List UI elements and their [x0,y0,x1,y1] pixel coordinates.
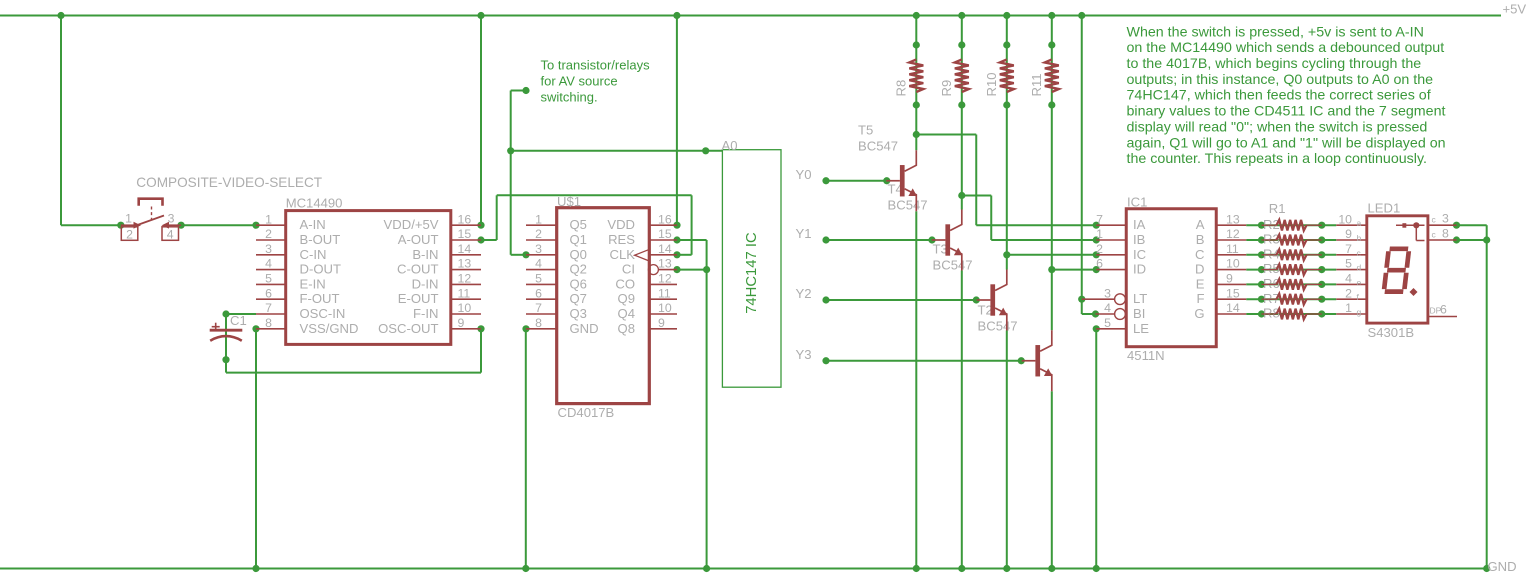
svg-text:OSC-IN: OSC-IN [300,306,346,321]
svg-text:Y0: Y0 [796,167,812,182]
svg-text:5: 5 [1104,316,1111,330]
svg-text:F-OUT: F-OUT [300,291,340,306]
svg-text:2: 2 [535,227,542,241]
svg-text:3: 3 [168,212,175,226]
svg-text:1: 1 [1345,301,1352,315]
svg-text:1: 1 [265,212,272,226]
svg-text:6: 6 [1440,303,1447,317]
svg-text:D-OUT: D-OUT [300,262,341,277]
svg-text:9: 9 [1226,272,1233,286]
svg-text:Q6: Q6 [570,276,587,291]
svg-text:4: 4 [1104,301,1111,315]
svg-text:C-IN: C-IN [300,247,327,262]
svg-text:74HC147, which then feeds the: 74HC147, which then feeds the correct se… [1127,88,1431,104]
svg-text:GND: GND [570,321,599,336]
svg-text:10: 10 [1338,212,1352,226]
svg-text:again, Q1 will go to A1 and "1: again, Q1 will go to A1 and "1" will be … [1127,135,1446,151]
svg-text:11: 11 [1226,242,1239,256]
svg-text:5: 5 [1345,257,1352,271]
svg-text:R9: R9 [939,80,954,97]
svg-text:on the MC14490 which sends a d: on the MC14490 which sends a debounced o… [1127,40,1445,56]
svg-text:1: 1 [1096,227,1103,241]
svg-text:A0: A0 [722,138,738,153]
svg-text:C-OUT: C-OUT [397,262,438,277]
svg-text:F-IN: F-IN [413,306,438,321]
svg-text:BC547: BC547 [888,198,928,213]
svg-text:14: 14 [658,242,672,256]
svg-text:LED1: LED1 [1368,201,1401,216]
svg-text:Q1: Q1 [570,232,587,247]
svg-text:BC547: BC547 [933,258,973,273]
svg-text:To transistor/relays: To transistor/relays [541,57,651,72]
svg-text:D-IN: D-IN [412,276,439,291]
svg-text:7: 7 [1096,212,1103,226]
svg-text:e: e [1357,277,1362,287]
svg-text:8: 8 [265,316,272,330]
svg-text:5: 5 [535,272,542,286]
svg-text:A-IN: A-IN [300,217,326,232]
svg-text:T5: T5 [858,122,873,137]
svg-text:2: 2 [126,228,133,242]
svg-text:13: 13 [1226,212,1240,226]
svg-text:6: 6 [265,286,272,300]
svg-text:Q7: Q7 [570,291,587,306]
svg-text:4: 4 [167,228,174,242]
svg-text:10: 10 [658,301,672,315]
svg-text:RES: RES [608,232,635,247]
svg-text:MC14490: MC14490 [286,195,343,210]
svg-text:COMPOSITE-VIDEO-SELECT: COMPOSITE-VIDEO-SELECT [136,175,322,190]
svg-text:BC547: BC547 [858,138,898,153]
svg-text:CD4017B: CD4017B [558,405,615,420]
svg-text:7: 7 [1345,242,1352,256]
svg-text:BC547: BC547 [978,318,1018,333]
svg-text:9: 9 [458,316,465,330]
svg-text:E-IN: E-IN [300,276,326,291]
svg-text:13: 13 [658,257,672,271]
svg-text:G: G [1194,306,1204,321]
svg-text:8: 8 [1442,226,1449,240]
svg-text:8: 8 [535,316,542,330]
svg-text:12: 12 [658,272,672,286]
svg-text:9: 9 [658,316,665,330]
svg-text:1: 1 [125,212,132,226]
svg-text:11: 11 [658,286,671,300]
svg-text:5: 5 [265,272,272,286]
svg-text:IC1: IC1 [1127,194,1147,209]
svg-text:Q9: Q9 [618,291,635,306]
svg-text:E-OUT: E-OUT [398,291,439,306]
svg-text:R1: R1 [1269,201,1286,216]
svg-text:for AV source: for AV source [541,73,618,88]
svg-text:outputs; in this instance, Q0: outputs; in this instance, Q0 outputs to… [1127,72,1434,88]
svg-text:14: 14 [1226,301,1240,315]
svg-text:b: b [1357,233,1362,243]
svg-text:+5V: +5V [1503,2,1527,17]
svg-text:11: 11 [458,286,471,300]
svg-text:12: 12 [1226,227,1240,241]
svg-text:CI: CI [622,262,635,277]
svg-text:switching.: switching. [541,89,598,104]
svg-text:C1: C1 [230,313,247,328]
svg-text:LE: LE [1133,321,1149,336]
svg-text:3: 3 [265,242,272,256]
svg-text:A: A [1196,217,1205,232]
svg-text:74HC147 IC: 74HC147 IC [744,232,760,314]
svg-text:7: 7 [265,301,272,315]
svg-text:Q8: Q8 [618,321,635,336]
svg-text:binary values to the CD4511 IC: binary values to the CD4511 IC and the 7… [1127,104,1446,120]
svg-text:9: 9 [1345,227,1352,241]
svg-text:VDD: VDD [607,217,635,232]
svg-text:B-OUT: B-OUT [300,232,341,247]
svg-text:C: C [1195,247,1204,262]
svg-text:Y2: Y2 [796,286,812,301]
svg-text:IA: IA [1133,217,1146,232]
svg-text:15: 15 [458,227,472,241]
svg-text:VDD/+5V: VDD/+5V [384,217,439,232]
svg-text:R11: R11 [1029,73,1044,96]
svg-text:the counter. This repeats in a: the counter. This repeats in a loop cont… [1127,151,1428,167]
svg-text:Q5: Q5 [570,217,587,232]
svg-text:D: D [1195,262,1204,277]
svg-text:4: 4 [265,257,272,271]
svg-text:6: 6 [1096,257,1103,271]
svg-text:GND: GND [1488,559,1517,574]
svg-text:B: B [1196,232,1205,247]
svg-text:IC: IC [1133,247,1146,262]
svg-text:Q2: Q2 [570,262,587,277]
svg-text:4511N: 4511N [1127,348,1165,363]
svg-text:ID: ID [1133,262,1146,277]
svg-text:U$1: U$1 [557,194,581,209]
svg-text:1: 1 [535,212,542,226]
svg-text:14: 14 [458,242,472,256]
svg-text:CO: CO [615,276,635,291]
svg-text:Y1: Y1 [796,226,812,241]
svg-text:16: 16 [458,212,472,226]
svg-text:15: 15 [1226,286,1240,300]
svg-text:CLK: CLK [610,247,636,262]
svg-text:7: 7 [535,301,542,315]
svg-text:BI: BI [1133,306,1145,321]
svg-text:E: E [1196,276,1205,291]
svg-text:13: 13 [458,257,472,271]
svg-text:F: F [1197,291,1205,306]
svg-text:d: d [1357,263,1362,273]
svg-text:3: 3 [535,242,542,256]
svg-text:10: 10 [1226,257,1240,271]
svg-text:2: 2 [1345,286,1352,300]
svg-text:2: 2 [1096,242,1103,256]
svg-text:12: 12 [458,272,472,286]
svg-text:4: 4 [535,257,542,271]
svg-text:IB: IB [1133,232,1146,247]
svg-text:R10: R10 [984,72,999,96]
svg-text:3: 3 [1442,212,1449,226]
svg-text:10: 10 [458,301,472,315]
svg-text:16: 16 [658,212,672,226]
svg-text:OSC-OUT: OSC-OUT [378,321,438,336]
svg-text:S4301B: S4301B [1368,325,1415,340]
svg-text:R8: R8 [893,80,908,97]
svg-text:When the switch is pressed, +5: When the switch is pressed, +5v is sent … [1127,24,1424,40]
svg-text:Q3: Q3 [570,306,587,321]
svg-text:VSS/GND: VSS/GND [300,321,359,336]
svg-text:6: 6 [535,286,542,300]
svg-text:a: a [1357,218,1362,228]
svg-text:B-IN: B-IN [412,247,438,262]
svg-text:Q0: Q0 [570,247,587,262]
svg-text:Y3: Y3 [796,347,812,362]
svg-text:LT: LT [1133,291,1147,306]
svg-text:display will read "0"; when th: display will read "0"; when the switch i… [1127,119,1428,135]
svg-text:A-OUT: A-OUT [398,232,439,247]
svg-text:g: g [1357,307,1362,317]
svg-text:to the 4017B, which begins cyc: to the 4017B, which begins cycling throu… [1127,56,1422,72]
svg-text:15: 15 [658,227,672,241]
svg-text:2: 2 [265,227,272,241]
svg-text:3: 3 [1104,286,1111,300]
svg-text:4: 4 [1345,272,1352,286]
svg-text:Q4: Q4 [618,306,635,321]
